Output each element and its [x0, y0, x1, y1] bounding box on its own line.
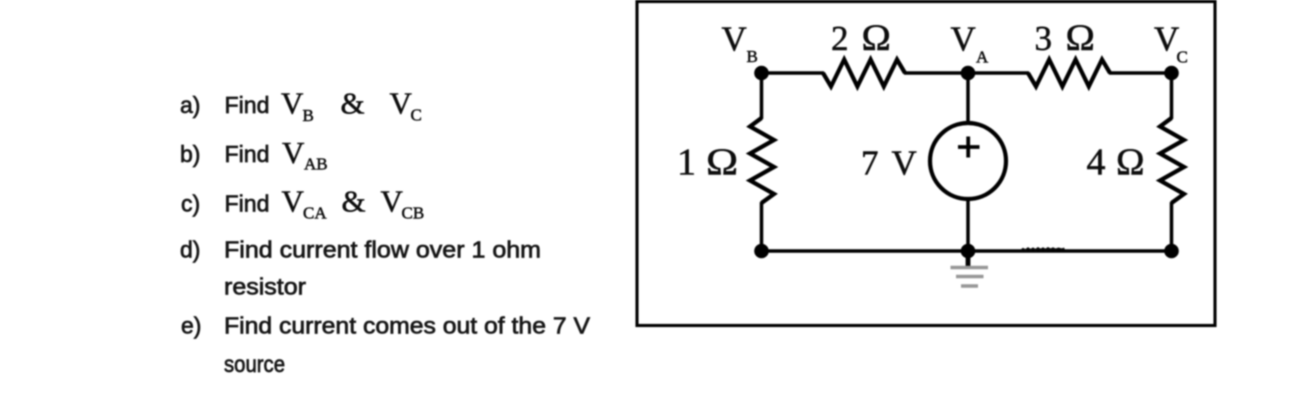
svg-text:A: A [976, 48, 989, 67]
label 3 ohm [1035, 17, 1095, 58]
svg-text:b): b) [180, 141, 200, 167]
wire middle leg upper [966, 73, 970, 123]
label 1 ohm [677, 142, 738, 184]
wire right leg lower [1170, 202, 1174, 251]
node label VA [951, 20, 990, 67]
svg-text:B: B [747, 47, 758, 66]
wire right leg upper [1170, 73, 1174, 119]
svg-text:1: 1 [677, 142, 696, 184]
question line e) [181, 313, 591, 378]
svg-text:V: V [951, 20, 976, 59]
svg-text:Find: Find [225, 191, 270, 217]
svg-text:3: 3 [1035, 19, 1053, 58]
svg-text:Ω: Ω [706, 142, 738, 184]
svg-text:Find: Find [225, 92, 270, 118]
resistor 4 ohm zigzag [1160, 118, 1184, 203]
question line a) [180, 86, 422, 126]
squiggle artifact on bottom wire [1021, 248, 1065, 250]
svg-text:V: V [281, 86, 304, 121]
question line c) [181, 184, 424, 223]
svg-text:source: source [224, 351, 285, 377]
node dot bottom left [754, 244, 769, 259]
node label VC [1154, 20, 1188, 67]
svg-text:Find: Find [225, 141, 270, 167]
svg-text:Ω: Ω [862, 17, 891, 58]
svg-text:V: V [892, 144, 917, 183]
svg-text:Ω: Ω [1066, 17, 1095, 58]
resistor 2 ohm zigzag [823, 60, 905, 87]
svg-text:7: 7 [861, 144, 879, 183]
voltage source plus sign [958, 137, 980, 158]
ground [951, 251, 989, 286]
node dot B [754, 66, 769, 81]
node dot A [961, 66, 976, 81]
circuit border frame [637, 2, 1215, 326]
svg-text:AB: AB [304, 155, 328, 174]
svg-text:4: 4 [1087, 142, 1106, 184]
svg-text:C: C [1177, 48, 1188, 67]
node dot bottom right [1164, 244, 1179, 259]
svg-text:d): d) [180, 237, 200, 263]
svg-text:Ω: Ω [1116, 142, 1145, 184]
svg-text:a): a) [180, 92, 200, 118]
wire left leg upper [760, 73, 764, 119]
wire top rail A to 3ohm [968, 71, 1029, 75]
svg-text:c): c) [181, 191, 200, 217]
svg-text:&: & [341, 86, 365, 121]
svg-text:2: 2 [831, 19, 849, 58]
wire left leg lower [760, 202, 764, 251]
wire top rail B to 2ohm [762, 71, 825, 75]
resistor 1 ohm zigzag [750, 118, 774, 203]
svg-text:V: V [381, 184, 404, 219]
voltage source 7V circle [930, 123, 1006, 199]
svg-text:resistor: resistor [224, 274, 306, 300]
wire top rail 3ohm to C [1109, 71, 1172, 75]
wire top rail 2ohm to A [904, 71, 968, 75]
svg-text:Find current comes out of the: Find current comes out of the 7 V [224, 313, 591, 339]
svg-text:V: V [282, 135, 305, 170]
svg-text:V: V [722, 20, 747, 59]
resistor 3 ohm zigzag [1028, 60, 1110, 87]
label 7 V [861, 144, 917, 183]
svg-text:V: V [390, 86, 413, 121]
svg-text:V: V [1154, 20, 1179, 59]
node dot bottom middle [961, 244, 976, 259]
wire bottom rail [762, 249, 1172, 253]
svg-text:C: C [411, 106, 422, 125]
svg-text:CB: CB [402, 204, 425, 223]
question line d) [180, 237, 541, 300]
question line b) [180, 135, 328, 174]
wire middle leg lower [966, 199, 970, 251]
node dot C [1164, 66, 1179, 81]
svg-text:e): e) [181, 313, 201, 339]
svg-text:B: B [303, 106, 314, 125]
label 4 ohm [1087, 142, 1145, 184]
label 2 ohm [831, 17, 891, 58]
svg-text:CA: CA [303, 204, 327, 223]
svg-text:&: & [342, 184, 366, 219]
node label VB [722, 20, 758, 67]
svg-text:Find current flow over 1 ohm: Find current flow over 1 ohm [224, 237, 541, 263]
svg-text:V: V [282, 184, 305, 219]
